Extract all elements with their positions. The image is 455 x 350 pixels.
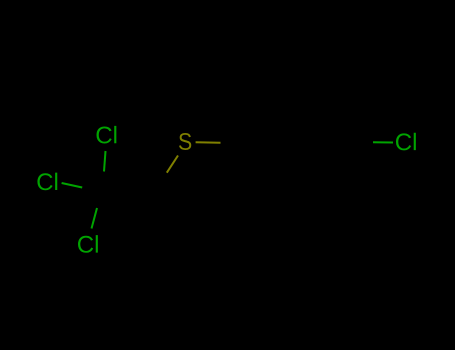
atom label Cl3 (bottom chlorine of CCl3)	[78, 235, 98, 253]
atom label Cl4 (para chlorine on benzene ring)	[396, 133, 416, 151]
bond C1-Cl3 (chlorine half)	[92, 208, 98, 229]
bond C1-Cl1 (chlorine half)	[104, 151, 106, 172]
bond C4aryl-Cl4 (chlorine half, horizontal)	[373, 141, 393, 143]
bond C2-S (sulfur half, diagonal)	[167, 156, 178, 173]
atom label S (sulfur)	[179, 133, 191, 150]
atom label Cl1 (top chlorine of CCl3)	[97, 126, 117, 144]
bond S-C1aryl (sulfur half, horizontal)	[196, 141, 221, 144]
bond C1-Cl2 (chlorine half)	[62, 183, 83, 188]
atom label Cl2 (left chlorine of CCl3)	[37, 173, 57, 191]
